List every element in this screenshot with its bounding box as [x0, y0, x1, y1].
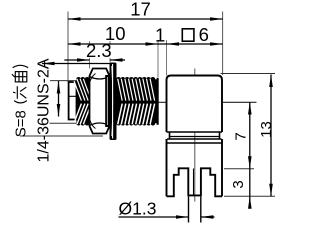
ext line S=8 top y80.6	[50, 80, 90, 82]
dim line 13 at x278.9	[270, 75, 272, 197]
ext line pin left x188.5	[188, 197, 190, 223]
square symbol	[182, 29, 194, 41]
svg-text:2.3: 2.3	[86, 40, 112, 61]
svg-text:17: 17	[130, 0, 151, 20]
body square block	[167, 76, 223, 133]
lower barrel walls	[166, 139, 168, 196]
full-width close paren (rotated, opens down)	[13, 65, 28, 67]
ext line body right x222.6	[222, 12, 224, 76]
ext line thread end x158	[157, 40, 159, 77]
neck groove below body	[167, 131, 223, 133]
kanji JIAO (horn), drawn rotated 90 CCW	[12, 72, 27, 82]
white mask under 2.3 text	[88, 45, 113, 58]
svg-text:13: 13	[258, 121, 275, 138]
full-width open paren (rotated, opens up)	[14, 101, 27, 103]
dim line 17	[68, 18, 223, 20]
ext line washer left x110	[109, 41, 111, 63]
socket hole line	[70, 95, 77, 97]
leader S=8 text y136	[20, 135, 103, 137]
pin inner line	[193, 169, 195, 196]
svg-text:7: 7	[232, 132, 249, 140]
horizontal axis centerline	[68, 101, 257, 103]
ext line shoulder right y168.3	[224, 168, 254, 170]
ext line leg bottom right y196.3	[224, 195, 275, 197]
bottom castellated profile with center pin	[167, 168, 223, 196]
ext line body left x166.5	[166, 40, 168, 76]
leader arrow washer top y63.5	[42, 63, 110, 65]
svg-text:3: 3	[230, 180, 247, 188]
svg-text:S=8: S=8	[13, 110, 30, 137]
kanji LIU (six), drawn rotated 90 CCW	[13, 86, 26, 99]
dim line S=8 vertical	[58, 81, 60, 117]
vertical axis centerline	[194, 69, 196, 202]
front interface block	[69, 82, 77, 120]
thread end face	[157, 78, 159, 125]
leader 1/4-36UNS y123.3	[50, 122, 114, 124]
svg-text:6: 6	[199, 24, 209, 45]
ext line front face x68	[67, 12, 69, 83]
dim line 2.3	[64, 59, 89, 61]
dim line 10 / 1 / square6	[68, 43, 223, 45]
svg-text:1: 1	[155, 24, 165, 45]
ext line body top right y73.5	[221, 73, 276, 75]
svg-text:Ø1.3: Ø1.3	[119, 199, 157, 219]
dim line 7 and 3 at x245.2	[249, 102, 251, 205]
ext line pin right x200.8	[200, 197, 202, 223]
ext line nut left x89.5	[89, 41, 91, 69]
dim line diameter 1.3	[119, 216, 189, 218]
svg-text:1/4-36UNS-2A: 1/4-36UNS-2A	[36, 58, 53, 162]
